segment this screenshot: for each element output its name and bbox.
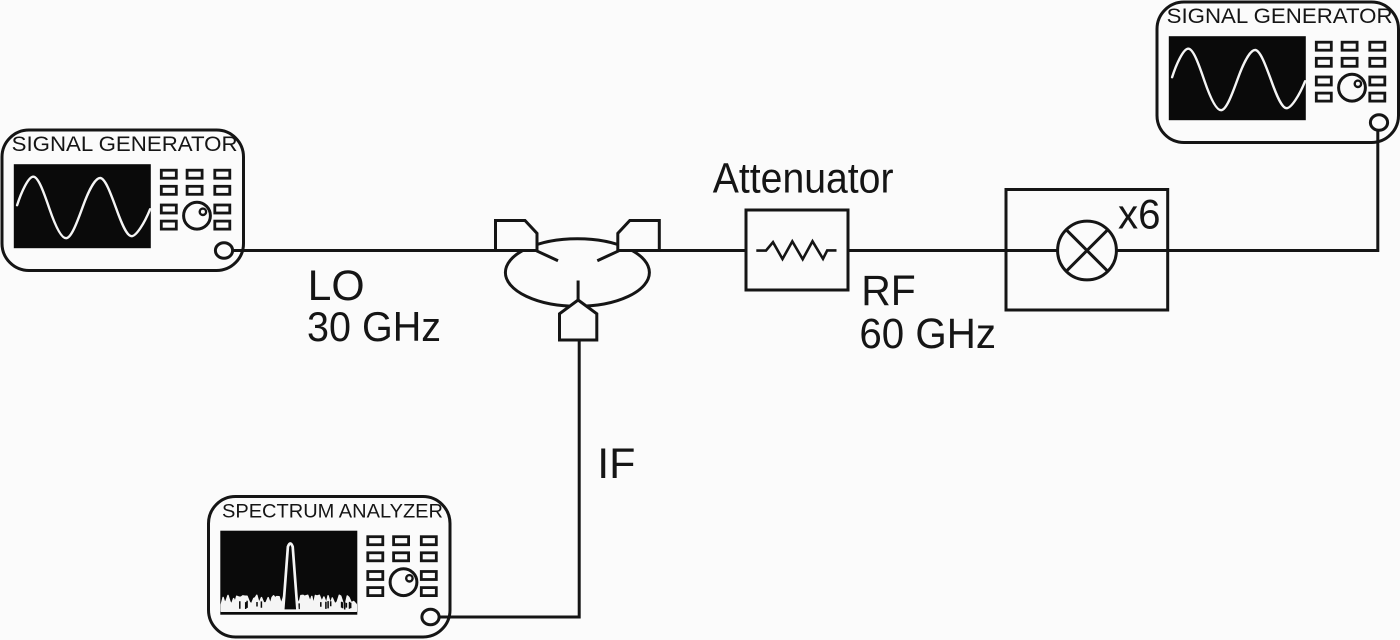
- multiplier mixer circle: [1058, 221, 1117, 280]
- mixer IF port (bottom waveguide flange): [560, 300, 597, 340]
- instrument: top-right signal generator (RF source): [1157, 2, 1399, 143]
- attenuator resistor element: [756, 241, 836, 259]
- multiplier internal through-line: [1006, 249, 1168, 252]
- mixer LO port (top-left waveguide flange): [496, 221, 538, 251]
- mixer RF port (top-right waveguide flange): [618, 221, 660, 251]
- wire: riser from x6 multiplier output up to top-right signal generator: [1167, 124, 1378, 251]
- svg-text:x6: x6: [1118, 191, 1161, 238]
- svg-text:30 GHz: 30 GHz: [307, 303, 441, 350]
- multiplier X cross: [1066, 230, 1108, 272]
- instrument: left signal generator (LO source): [2, 130, 244, 271]
- svg-text:SPECTRUM ANALYZER: SPECTRUM ANALYZER: [222, 501, 443, 523]
- wire: LO/RF main horizontal run (SG1 output to x6 multiplier to right riser): [224, 249, 1170, 252]
- svg-text:60 GHz: 60 GHz: [859, 310, 996, 358]
- attenuator box: [746, 210, 848, 290]
- frequency multiplier box: [1006, 190, 1168, 311]
- mixer internal junction lines: [537, 251, 619, 301]
- mixer body (three-port circle): [505, 239, 649, 307]
- svg-text:SIGNAL GENERATOR: SIGNAL GENERATOR: [12, 133, 238, 156]
- svg-text:IF: IF: [597, 440, 635, 488]
- wire: IF run, mixer bottom port down then left to spectrum analyzer input: [430, 302, 579, 617]
- svg-text:Attenuator: Attenuator: [713, 154, 894, 201]
- instrument: spectrum analyzer (IF measurement): [209, 497, 451, 638]
- svg-text:RF: RF: [861, 268, 916, 315]
- svg-text:SIGNAL GENERATOR: SIGNAL GENERATOR: [1167, 5, 1393, 28]
